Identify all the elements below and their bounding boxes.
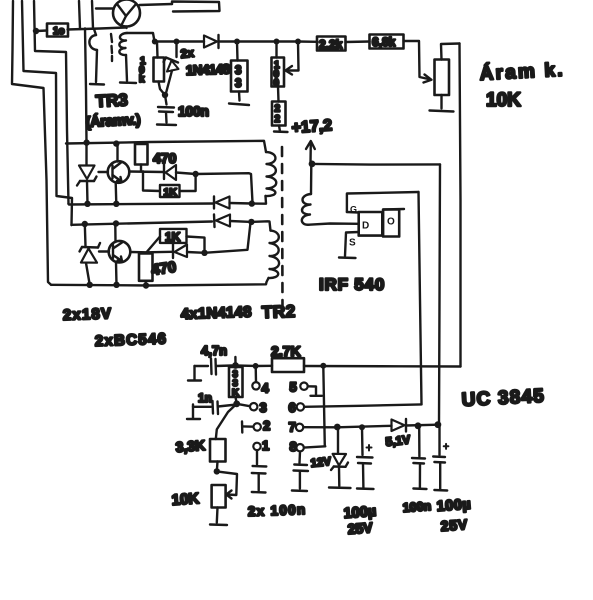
capacitor 100n pin8 <box>292 452 308 491</box>
svg-text:2,7K: 2,7K <box>271 343 301 359</box>
wire pin8 jog <box>304 446 325 447</box>
resistor 22 <box>272 87 288 133</box>
svg-text:(Áramv.): (Áramv.) <box>85 111 141 131</box>
resistor 470 lower <box>139 254 153 286</box>
svg-text:2: 2 <box>275 114 281 125</box>
wire lower bottom rail <box>51 278 269 289</box>
ground 100n right <box>413 487 426 490</box>
capacitor 100µ #2 <box>433 425 448 491</box>
svg-text:6,8k: 6,8k <box>372 35 396 49</box>
transistor Q2 BC546 upper <box>99 144 130 204</box>
potentiometer 100 <box>272 42 299 90</box>
svg-text:1K: 1K <box>164 187 178 199</box>
ground 4,7n <box>188 379 201 381</box>
potentiometer Áram k. 10K <box>430 44 460 112</box>
wire vertical B <box>439 164 440 424</box>
wire vertical A right side <box>460 44 461 367</box>
resistor 3,3K <box>210 439 226 475</box>
transistor Q3 BC546 lower <box>99 225 130 285</box>
svg-text:G: G <box>350 205 357 215</box>
zener 18V lower <box>80 224 101 285</box>
svg-text:6: 6 <box>289 400 296 415</box>
transformer TR2 lower secondary <box>269 231 280 278</box>
capacitor 100µ #1 <box>357 427 374 489</box>
svg-text:O: O <box>387 217 395 228</box>
resistor 2,7K <box>272 358 304 372</box>
svg-text:1K: 1K <box>165 230 181 244</box>
svg-text:2x: 2x <box>180 46 195 61</box>
svg-text:TR2: TR2 <box>261 302 296 322</box>
mosfet IRF540 <box>339 192 419 258</box>
svg-text:1N4148: 1N4148 <box>186 61 231 78</box>
svg-text:2: 2 <box>275 104 281 115</box>
diode D0 on W42 <box>204 35 219 48</box>
ground R22 <box>274 130 288 133</box>
wire upper bottom rail <box>69 196 267 207</box>
diode D4 lower <box>173 243 187 259</box>
svg-text:5,1V: 5,1V <box>385 432 411 449</box>
IC UC3845 pins <box>250 382 308 451</box>
TR2 core dashed line <box>281 147 284 309</box>
wire D-line lower <box>131 223 251 257</box>
node RT <box>232 357 239 369</box>
wire base vertical L5 <box>92 1 93 29</box>
zener 2x1N4148 <box>162 42 179 98</box>
wire W42 main top <box>152 39 317 45</box>
capacitor 100n right <box>412 426 427 489</box>
ground source S <box>339 256 356 259</box>
wire top structure <box>172 2 220 12</box>
wire W164 <box>312 163 440 166</box>
svg-text:1o: 1o <box>53 26 65 37</box>
wire vertical C gate <box>419 192 422 404</box>
svg-text:2: 2 <box>263 418 270 433</box>
wire upper top rail <box>66 139 266 152</box>
wire to wiper arrow <box>404 41 432 83</box>
svg-text:8: 8 <box>290 439 297 454</box>
svg-text:3: 3 <box>235 65 241 77</box>
resistor 33 <box>229 42 249 106</box>
wire diagonal to 3,3K <box>216 404 237 439</box>
transformer TR2 upper secondary <box>266 152 277 196</box>
wire pin7 W425 <box>304 421 442 430</box>
svg-text:100n: 100n <box>178 103 209 119</box>
ground 10K pot <box>210 523 227 526</box>
svg-text:25V: 25V <box>347 519 374 537</box>
ground R33 <box>229 104 249 106</box>
resistor 1K lower <box>146 229 204 253</box>
diode D3 between rails <box>214 215 230 228</box>
svg-text:470: 470 <box>150 259 177 279</box>
capacitor 1n <box>187 401 237 419</box>
svg-text:3: 3 <box>235 78 241 90</box>
resistor 10k TR3 load <box>154 42 166 95</box>
resistor 2,2k <box>317 37 346 52</box>
pin 5 ground hook <box>308 386 322 396</box>
svg-text:1n: 1n <box>198 391 212 405</box>
wire lower top rail <box>72 219 271 231</box>
ground 100u <box>357 487 374 490</box>
node Vfb <box>233 400 250 407</box>
svg-text:3,3K: 3,3K <box>175 437 206 455</box>
svg-text:7: 7 <box>289 420 296 435</box>
ground TR3 right winding <box>120 81 136 84</box>
pin 2 ground <box>242 422 253 433</box>
wire D-line upper <box>130 171 253 203</box>
potentiometer 10K <box>210 471 237 525</box>
svg-text:2x18V: 2x18V <box>63 305 113 324</box>
svg-text:10K: 10K <box>486 90 521 111</box>
wire <box>346 40 370 43</box>
transformer TR2 primary <box>302 164 359 225</box>
resistor 470 upper <box>135 144 148 171</box>
svg-text:k: k <box>139 74 145 85</box>
ground cap pin1 <box>252 491 266 494</box>
capacitor 100n pin1 <box>252 450 266 492</box>
wire left staircase L3 <box>34 1 69 204</box>
capacitor 4,7n <box>188 359 232 381</box>
wire left staircase L2 <box>22 1 72 225</box>
zener 12V <box>329 427 351 488</box>
wire RT vertical to pin8 <box>323 366 325 447</box>
resistor 6,8k <box>370 35 404 50</box>
ground potentiometer <box>430 111 454 112</box>
zener 18V upper <box>77 143 97 204</box>
node +17.2 arrow <box>306 141 315 167</box>
resistor 33K <box>229 367 243 404</box>
transistor Q1 top <box>96 0 172 28</box>
svg-text:4,7n: 4,7n <box>201 343 227 358</box>
svg-text:12V: 12V <box>310 456 332 470</box>
svg-text:+17,2: +17,2 <box>291 117 333 137</box>
ground cap pin8 <box>292 489 307 492</box>
wire feed vertical to upper rail <box>85 29 87 143</box>
svg-text:4: 4 <box>262 381 270 396</box>
svg-text:Áram k.: Áram k. <box>479 59 565 85</box>
wire W28 <box>68 28 126 30</box>
ground 1n <box>187 418 200 420</box>
svg-text:3: 3 <box>260 400 267 415</box>
svg-text:TR3: TR3 <box>95 90 128 111</box>
svg-text:1: 1 <box>262 438 269 453</box>
svg-text:10K: 10K <box>171 490 200 509</box>
resistor 1K upper <box>143 171 196 198</box>
diode D1 upper <box>164 163 176 180</box>
ground 100u right <box>434 489 447 492</box>
wire pin6 W404 <box>304 404 421 406</box>
svg-text:2xBC546: 2xBC546 <box>95 330 168 350</box>
svg-text:4x1N4148: 4x1N4148 <box>181 304 252 323</box>
svg-text:5: 5 <box>290 380 297 395</box>
wire feed L4 to W28 <box>79 1 80 29</box>
diode 5,1V <box>392 419 407 432</box>
diode D2 on upper bottom rail <box>214 197 230 209</box>
resistor R 1o <box>33 24 68 38</box>
transformer TR3 <box>89 29 154 85</box>
svg-text:25V: 25V <box>440 516 468 534</box>
svg-text:2x 100n: 2x 100n <box>248 502 307 519</box>
svg-text:D: D <box>362 221 369 232</box>
svg-text:IRF 540: IRF 540 <box>319 275 385 294</box>
wire W366 right <box>304 363 461 369</box>
ground 100n <box>157 123 176 126</box>
svg-text:2,2k: 2,2k <box>319 38 343 52</box>
svg-text:S: S <box>349 238 356 249</box>
capacitor 100n TR3 <box>157 95 176 125</box>
wire left staircase L1 <box>12 1 51 285</box>
ground TR3 left winding <box>90 83 104 86</box>
svg-text:100µ: 100µ <box>436 497 472 515</box>
svg-text:100n: 100n <box>402 499 431 515</box>
ground 12V zener <box>329 486 351 489</box>
svg-text:UC 3845: UC 3845 <box>461 386 545 411</box>
wire RT node to 2.7K <box>236 363 273 382</box>
